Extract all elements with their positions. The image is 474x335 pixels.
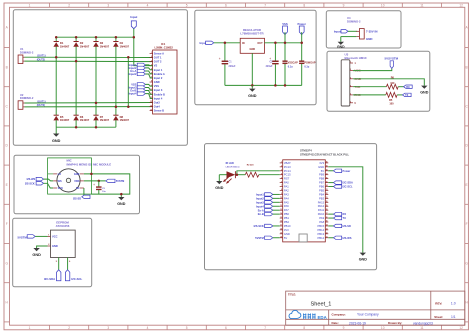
svg-text:Sense B: Sense B [154, 109, 164, 113]
svg-text:GND: GND [318, 165, 324, 169]
svg-text:3: 3 [107, 4, 109, 8]
svg-text:1: 1 [151, 52, 152, 54]
svg-text:OUT: OUT [257, 42, 263, 45]
svg-text:10: 10 [280, 197, 282, 199]
svg-text:PA5: PA5 [284, 200, 289, 204]
svg-text:B: B [466, 65, 468, 69]
svg-text:7: 7 [264, 326, 266, 330]
svg-text:1N4007: 1N4007 [60, 44, 70, 48]
svg-text:Input2: Input2 [129, 72, 137, 76]
svg-text:32: 32 [326, 193, 328, 195]
svg-text:Sense A: Sense A [154, 51, 164, 55]
svg-text:GND: GND [32, 253, 41, 257]
svg-text:GND: GND [215, 186, 224, 190]
svg-text:Input 2: Input 2 [154, 76, 163, 80]
svg-text:31: 31 [326, 197, 328, 199]
svg-text:1N4007: 1N4007 [100, 44, 110, 48]
svg-text:vandungqc03: vandungqc03 [413, 321, 433, 325]
svg-text:2: 2 [151, 56, 152, 58]
svg-text:Input: Input [130, 15, 137, 19]
svg-text:Out4: Out4 [154, 105, 160, 109]
svg-text:38: 38 [326, 169, 328, 171]
svg-text:PA10: PA10 [318, 212, 325, 216]
svg-text:TITLE:: TITLE: [288, 292, 296, 296]
svg-text:I2S-WS: I2S-WS [27, 178, 36, 181]
svg-text:12: 12 [459, 326, 463, 330]
svg-text:EDA: EDA [318, 315, 328, 320]
svg-text:5: 5 [281, 177, 282, 179]
svg-text:Enable A: Enable A [154, 72, 165, 76]
svg-text:I2C-SCL: I2C-SCL [71, 277, 82, 281]
svg-text:12: 12 [280, 205, 282, 207]
svg-text:GND: GND [52, 139, 61, 143]
svg-text:OUT 2: OUT 2 [154, 60, 162, 64]
svg-text:Input4: Input4 [129, 92, 137, 96]
svg-text:GND: GND [337, 45, 345, 49]
svg-text:VBAT: VBAT [284, 161, 291, 165]
svg-text:Power: Power [297, 22, 306, 26]
svg-text:VS: VS [154, 64, 158, 68]
svg-text:29: 29 [326, 205, 328, 207]
svg-text:0.1u: 0.1u [288, 66, 293, 69]
svg-text:GND: GND [117, 202, 126, 206]
svg-text:F: F [6, 222, 8, 226]
svg-text:PB2: PB2 [284, 220, 290, 224]
svg-text:I2S-WS: I2S-WS [343, 236, 352, 240]
svg-text:Input2: Input2 [256, 196, 264, 200]
svg-text:GND: GND [74, 173, 80, 176]
svg-text:GND: GND [250, 48, 256, 51]
svg-text:6: 6 [225, 326, 227, 330]
svg-text:Sheet_1: Sheet_1 [311, 301, 332, 307]
svg-text:PA6: PA6 [284, 204, 289, 208]
svg-text:1N4007: 1N4007 [120, 44, 130, 48]
svg-text:7: 7 [281, 185, 282, 187]
svg-text:PA11: PA11 [318, 208, 325, 212]
svg-text:3: 3 [151, 60, 152, 62]
svg-text:VCC: VCC [52, 235, 58, 239]
svg-text:220uF: 220uF [266, 65, 273, 68]
svg-text:Power: Power [343, 169, 351, 173]
svg-text:14: 14 [150, 104, 152, 107]
svg-text:1: 1 [350, 62, 351, 64]
svg-text:Enable B: Enable B [154, 92, 165, 96]
svg-text:5VSTM: 5VSTM [255, 236, 264, 240]
svg-text:4: 4 [147, 326, 149, 330]
svg-text:WS: WS [58, 180, 62, 183]
svg-text:1N4007: 1N4007 [120, 118, 130, 122]
svg-text:LED-IR 940nm: LED-IR 940nm [226, 165, 240, 168]
svg-text:1: 1 [29, 4, 31, 8]
svg-text:28: 28 [326, 209, 328, 211]
svg-text:POWGAP: POWGAP [304, 62, 315, 65]
svg-text:5V: 5V [321, 169, 324, 173]
svg-text:25: 25 [326, 221, 328, 223]
svg-text:Input1: Input1 [256, 193, 264, 197]
svg-text:Your Company: Your Company [357, 313, 379, 317]
svg-text:PB0: PB0 [284, 212, 290, 216]
svg-text:VSSCAP: VSSCAP [288, 62, 298, 65]
svg-text:GND: GND [284, 232, 290, 236]
svg-text:PB9: PB9 [319, 173, 325, 177]
svg-text:36: 36 [326, 177, 328, 179]
svg-text:1N4007: 1N4007 [60, 118, 70, 122]
svg-text:PA4: PA4 [284, 196, 289, 200]
svg-text:PA1: PA1 [284, 185, 289, 189]
svg-text:U4: U4 [347, 16, 351, 20]
svg-text:PA8: PA8 [319, 220, 324, 224]
svg-text:30: 30 [326, 201, 328, 203]
svg-text:Input4: Input4 [256, 204, 264, 208]
svg-text:F: F [466, 222, 468, 226]
svg-text:I2C-SDA: I2C-SDA [343, 181, 354, 185]
svg-text:100: 100 [390, 82, 395, 85]
svg-text:8: 8 [281, 189, 282, 191]
svg-text:37: 37 [326, 173, 328, 175]
svg-text:9: 9 [281, 193, 282, 195]
svg-text:2: 2 [68, 4, 70, 8]
svg-text:PA2: PA2 [284, 188, 289, 192]
svg-text:SCK: SCK [58, 187, 63, 190]
svg-text:21: 21 [326, 236, 328, 238]
svg-text:5VSTM: 5VSTM [116, 180, 124, 183]
svg-text:AT24C256: AT24C256 [56, 224, 70, 228]
svg-text:26: 26 [326, 217, 328, 219]
svg-text:PA0: PA0 [284, 181, 289, 185]
svg-text:2: 2 [350, 69, 351, 71]
svg-text:I2S-SCK: I2S-SCK [25, 182, 35, 185]
svg-text:I2S-SCK: I2S-SCK [254, 224, 264, 228]
svg-text:16: 16 [280, 221, 282, 223]
svg-text:PB14: PB14 [318, 228, 325, 232]
svg-text:PB13: PB13 [318, 232, 325, 236]
svg-text:10: 10 [381, 4, 385, 8]
svg-text:8: 8 [303, 326, 305, 330]
svg-text:PB8: PB8 [319, 177, 325, 181]
svg-text:9: 9 [343, 4, 345, 8]
svg-text:INMP441 MEMS I2S MIC MODULE: INMP441 MEMS I2S MIC MODULE [67, 163, 112, 167]
svg-text:DOMINO-2: DOMINO-2 [20, 96, 34, 100]
svg-text:100: 100 [389, 103, 394, 106]
svg-text:I2S-SD: I2S-SD [73, 197, 81, 200]
svg-text:5V: 5V [284, 236, 287, 240]
svg-text:TX: TX [343, 216, 347, 220]
svg-text:5: 5 [350, 94, 351, 96]
svg-text:+: + [219, 57, 221, 61]
svg-text:STM32F4: STM32F4 [300, 149, 312, 153]
svg-text:7-35V IN: 7-35V IN [366, 29, 377, 33]
svg-text:E: E [466, 183, 468, 187]
svg-text:7: 7 [264, 4, 266, 8]
svg-text:PA3: PA3 [284, 192, 289, 196]
svg-text:Input 3: Input 3 [154, 88, 163, 92]
svg-text:1: 1 [354, 61, 356, 65]
svg-text:15: 15 [280, 217, 282, 219]
svg-text:Date:: Date: [332, 321, 339, 325]
svg-text:Bluetooth HM10: Bluetooth HM10 [345, 56, 367, 60]
svg-text:220uF: 220uF [229, 65, 236, 68]
svg-text:En-B: En-B [258, 212, 264, 216]
svg-text:PB15: PB15 [318, 224, 325, 228]
svg-text:1: 1 [29, 326, 31, 330]
svg-text:2: 2 [281, 166, 282, 168]
svg-text:PA9: PA9 [319, 216, 324, 220]
svg-text:15: 15 [150, 109, 152, 111]
svg-text:13: 13 [280, 209, 282, 211]
svg-text:27: 27 [326, 213, 328, 215]
svg-text:R2 220: R2 220 [247, 164, 255, 166]
svg-text:22: 22 [326, 233, 328, 235]
svg-text:8: 8 [303, 4, 305, 8]
svg-text:+: + [93, 183, 95, 187]
svg-text:18: 18 [280, 229, 282, 231]
svg-text:L78M05ABDT-TR: L78M05ABDT-TR [240, 32, 264, 36]
svg-text:Company:: Company: [332, 313, 346, 317]
svg-text:3: 3 [107, 326, 109, 330]
svg-text:Drawn By:: Drawn By: [388, 321, 402, 325]
svg-text:VDD: VDD [74, 180, 79, 183]
svg-text:19: 19 [280, 233, 282, 235]
svg-text:1N4007: 1N4007 [100, 118, 110, 122]
svg-text:35: 35 [326, 181, 328, 183]
svg-text:En-A: En-A [258, 208, 264, 212]
svg-text:8: 8 [151, 81, 152, 83]
svg-text:I2S-SD: I2S-SD [343, 224, 351, 228]
svg-text:11: 11 [281, 201, 283, 203]
svg-text:5: 5 [186, 4, 188, 8]
svg-text:3V3: 3V3 [319, 161, 324, 165]
svg-text:6: 6 [281, 181, 282, 183]
svg-text:VSS: VSS [154, 84, 159, 88]
svg-text:TX: TX [405, 94, 409, 97]
svg-text:10u: 10u [102, 191, 106, 193]
svg-text:GND: GND [420, 91, 429, 95]
svg-text:1.0: 1.0 [451, 302, 456, 306]
svg-text:39: 39 [326, 166, 328, 168]
svg-text:VSS: VSS [282, 22, 288, 26]
svg-text:1: 1 [281, 162, 282, 164]
svg-text:PB12: PB12 [318, 236, 325, 240]
svg-text:PB1: PB1 [284, 216, 290, 220]
svg-text:4: 4 [147, 4, 149, 8]
svg-text:9: 9 [343, 326, 345, 330]
svg-text:OUT 1: OUT 1 [154, 55, 162, 59]
svg-text:20: 20 [280, 236, 282, 238]
svg-text:0.1u: 0.1u [304, 66, 309, 69]
svg-text:SD: SD [76, 187, 80, 190]
svg-text:B: B [6, 65, 8, 69]
svg-text:STM32F411CEU6 WEACT BLACK PILL: STM32F411CEU6 WEACT BLACK PILL [300, 153, 349, 157]
svg-text:13: 13 [150, 101, 152, 103]
svg-text:11: 11 [420, 326, 424, 330]
svg-text:12: 12 [459, 4, 463, 8]
svg-text:LR: LR [58, 173, 62, 176]
svg-text:RST: RST [284, 177, 290, 181]
svg-text:Input3: Input3 [256, 200, 264, 204]
svg-text:1N4007: 1N4007 [80, 118, 90, 122]
svg-text:GND: GND [366, 37, 372, 41]
svg-text:PB6: PB6 [319, 185, 325, 189]
svg-text:E: E [6, 183, 8, 187]
svg-text:IR LED: IR LED [226, 162, 234, 165]
svg-text:DOMINO-2: DOMINO-2 [20, 50, 34, 54]
svg-text:3V3: 3V3 [284, 228, 289, 232]
svg-text:6: 6 [350, 101, 351, 103]
svg-text:PA15: PA15 [318, 200, 325, 204]
svg-text:PA7: PA7 [284, 208, 289, 212]
svg-text:PB4: PB4 [319, 192, 325, 196]
svg-text:1/1: 1/1 [451, 315, 456, 319]
svg-text:GND: GND [359, 258, 368, 262]
svg-text:Out3: Out3 [154, 100, 160, 104]
svg-text:PC13: PC13 [284, 165, 291, 169]
svg-text:PC14: PC14 [284, 169, 291, 173]
svg-text:1N4007: 1N4007 [80, 44, 90, 48]
svg-text:PB10: PB10 [284, 224, 291, 228]
svg-text:Sheet:: Sheet: [434, 315, 443, 319]
svg-text:IN: IN [242, 42, 245, 45]
svg-text:2023-06-19: 2023-06-19 [349, 321, 366, 325]
svg-text:3: 3 [281, 169, 282, 171]
svg-text:6: 6 [354, 101, 356, 105]
svg-text:PC15: PC15 [284, 173, 291, 177]
svg-text:GND: GND [154, 80, 160, 84]
svg-text:RX: RX [406, 86, 410, 89]
svg-text:4: 4 [350, 84, 351, 87]
svg-text:23: 23 [326, 229, 328, 231]
svg-text:PA12: PA12 [318, 204, 325, 208]
svg-text:5VSYSTM: 5VSYSTM [385, 56, 399, 60]
svg-text:L298N_C19822: L298N_C19822 [155, 45, 174, 49]
svg-text:GND: GND [248, 94, 257, 98]
svg-text:Input 1: Input 1 [154, 68, 163, 72]
svg-text:2: 2 [68, 326, 70, 330]
svg-text:33: 33 [326, 189, 328, 191]
svg-text:I2C-SDA: I2C-SDA [44, 277, 55, 281]
svg-text:17: 17 [280, 225, 282, 227]
svg-text:10: 10 [381, 326, 385, 330]
svg-text:3: 3 [350, 77, 351, 79]
svg-text:REV:: REV: [435, 301, 442, 305]
svg-text:5VSTM: 5VSTM [17, 236, 27, 240]
svg-text:PB7: PB7 [319, 181, 325, 185]
svg-text:Input: Input [334, 29, 341, 33]
svg-text:DOMINO-2: DOMINO-2 [347, 20, 361, 24]
svg-text:GND: GND [52, 244, 58, 248]
svg-text:RX: RX [343, 212, 347, 216]
svg-text:6: 6 [225, 4, 227, 8]
svg-text:5: 5 [186, 326, 188, 330]
svg-text:11: 11 [420, 4, 424, 8]
svg-text:PB3: PB3 [319, 196, 325, 200]
svg-text:Input 4: Input 4 [154, 96, 163, 100]
svg-text:PB5: PB5 [319, 188, 325, 192]
svg-text:I2C-SCL: I2C-SCL [343, 185, 354, 189]
